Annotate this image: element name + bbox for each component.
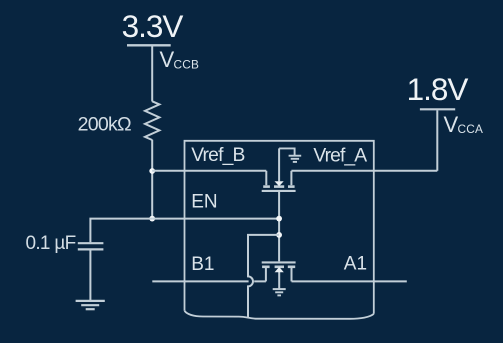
label VCCB (160, 47, 200, 72)
transistor Q2 (bottom FET) (262, 262, 296, 288)
Q1 body wire to ground (278, 148, 280, 181)
svg-text:EN: EN (191, 191, 217, 212)
svg-text:Vref_B: Vref_B (191, 145, 244, 166)
svg-text:V: V (444, 112, 459, 137)
supply rail bar VCCA (420, 108, 455, 110)
resistor R1 200k zigzag (145, 101, 159, 140)
wire Vref_B net (152, 170, 266, 172)
svg-text:1.8V: 1.8V (407, 71, 469, 107)
wire EN net (152, 218, 279, 220)
ground (capacitor) (76, 301, 105, 309)
Q1 right terminal (290, 171, 292, 185)
svg-text:A1: A1 (344, 254, 367, 275)
torn edge wavy line (185, 311, 374, 319)
wire node to capacitor (90, 219, 152, 243)
node junction one-shot tap (276, 232, 282, 238)
wire A1 net (292, 280, 407, 282)
Q2 body wire to ground (278, 272, 280, 289)
capacitor C1 plates (78, 242, 104, 244)
wire resistor to EN node (151, 140, 153, 220)
node junction EN (149, 216, 155, 222)
IC box outline (185, 141, 374, 314)
node junction EN/gate (276, 216, 282, 222)
Q1 left terminal (265, 171, 267, 185)
Q2 body arrow (275, 267, 284, 272)
transistor Q1 (top pass FET) (262, 148, 296, 191)
supply rail bar VCCB (127, 44, 171, 46)
svg-text:CCA: CCA (458, 122, 484, 136)
node junction Vref_B (149, 168, 155, 174)
svg-text:V: V (160, 47, 175, 72)
Q1 contact bars (263, 185, 294, 188)
Q2 gate line (262, 261, 296, 263)
Q1 body arrow (275, 181, 284, 186)
svg-text:Vref_A: Vref_A (313, 145, 367, 166)
svg-text:200kΩ: 200kΩ (78, 113, 131, 135)
svg-text:CCB: CCB (174, 57, 200, 71)
ground (top, body of Q1) (279, 148, 301, 162)
svg-text:B1: B1 (191, 254, 214, 275)
Q1 gate line (262, 190, 296, 192)
label VCCA (444, 112, 484, 137)
svg-text:0.1 µF: 0.1 µF (25, 233, 75, 254)
ground (bottom, body of Q2) (273, 289, 286, 295)
wire 3.3V bar to resistor (151, 47, 153, 102)
wire capacitor to ground (89, 249, 91, 300)
wire B1 net (152, 280, 266, 282)
gate wire Q1 to Q2 (278, 192, 280, 261)
wire 1.8V bar down (436, 110, 438, 170)
wire one-shot branch with hop over B1 (248, 235, 279, 318)
Q2 right terminal (291, 268, 293, 281)
Q2 contact bars (262, 265, 295, 268)
wire Vref_A net to 1.8V (291, 170, 437, 172)
Q2 left terminal (265, 268, 267, 281)
svg-text:3.3V: 3.3V (122, 8, 184, 44)
